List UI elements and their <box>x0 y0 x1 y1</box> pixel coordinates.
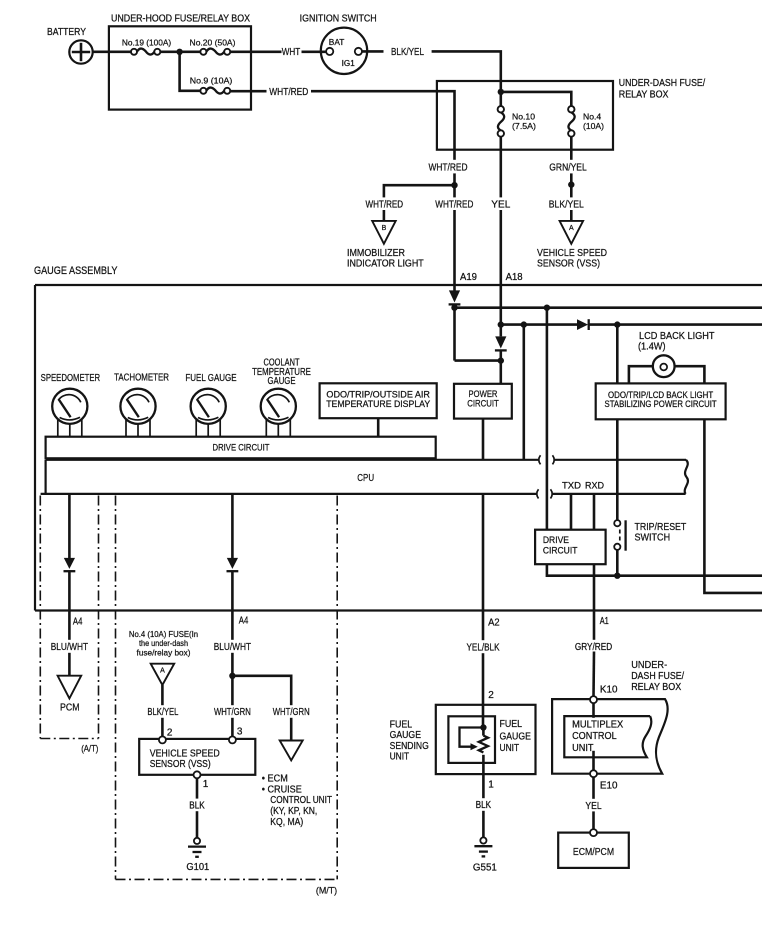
svg-text:A4: A4 <box>73 616 83 627</box>
fuel variable resistor <box>479 728 488 800</box>
svg-text:GAUGE: GAUGE <box>268 376 296 387</box>
fuse No.9 (10A) <box>200 88 230 94</box>
svg-text:A18: A18 <box>506 272 523 283</box>
under-dash fuse/relay box <box>437 81 613 150</box>
fuel resistor wiper arrow <box>460 728 484 751</box>
under-dash relay box outline (torn) <box>552 699 668 774</box>
VSS pin 1 circle <box>194 771 201 778</box>
svg-text:SENDING: SENDING <box>390 741 429 752</box>
svg-text:VEHICLE SPEED: VEHICLE SPEED <box>537 248 607 259</box>
wire fuse20 to WHT label <box>230 50 281 53</box>
node power circuit feed <box>498 357 504 363</box>
drive circuit long box <box>46 437 436 459</box>
power circuit box <box>454 384 512 419</box>
wire fuse9 to WHT/RED label <box>230 90 266 93</box>
wire diode D1 to bus node <box>453 304 456 360</box>
wire WHT to ignition switch <box>302 50 327 53</box>
svg-text:UNDER-DASH FUSE/: UNDER-DASH FUSE/ <box>619 78 706 89</box>
wire label YEL bottom <box>580 799 607 812</box>
trip/reset switch label <box>635 522 687 544</box>
wire label WHT/GRN branch <box>268 705 314 718</box>
svg-text:KQ, MA): KQ, MA) <box>270 817 303 828</box>
svg-text:BLU/WHT: BLU/WHT <box>51 642 88 653</box>
svg-text:No.20 (50A): No.20 (50A) <box>190 37 236 47</box>
wire A19 branch to power circuit node <box>455 359 501 362</box>
pin K10 circle <box>590 696 597 703</box>
svg-text:CIRCUIT: CIRCUIT <box>467 398 499 409</box>
wire label BLK/YEL at VSS connector <box>544 197 588 210</box>
svg-text:SPEEDOMETER: SPEEDOMETER <box>41 373 101 384</box>
odo/trip/outside air temperature display box <box>320 383 437 418</box>
svg-text:STABILIZING POWER CIRCUIT: STABILIZING POWER CIRCUIT <box>605 399 718 409</box>
wire label WHT/RED at A19 wire <box>433 197 476 210</box>
svg-text:BLK: BLK <box>476 800 492 811</box>
wire label BLK/YEL VSS <box>141 705 184 718</box>
node junction under-hood <box>176 49 182 55</box>
ECM/PCM box <box>558 833 629 868</box>
svg-text:fuse/relay box): fuse/relay box) <box>137 648 191 658</box>
svg-text:(KY, KP, KN,: (KY, KP, KN, <box>270 806 317 817</box>
svg-text:RELAY BOX: RELAY BOX <box>619 89 669 100</box>
svg-text:(A/T): (A/T) <box>81 744 98 755</box>
power circuit label <box>467 389 499 409</box>
node bus1 start <box>451 305 457 311</box>
svg-text:WHT/GRN: WHT/GRN <box>214 707 251 718</box>
svg-text:• CRUISE: • CRUISE <box>262 784 302 795</box>
fuse No.20 (50A) <box>200 49 230 55</box>
svg-text:BLK: BLK <box>189 801 205 812</box>
label immobilizer indicator light <box>347 248 424 269</box>
svg-text:A: A <box>569 225 574 232</box>
svg-text:WHT/RED: WHT/RED <box>269 87 308 98</box>
svg-text:GAUGE ASSEMBLY: GAUGE ASSEMBLY <box>34 265 118 277</box>
wire label YEL at A18 wire <box>489 197 514 210</box>
multiplex control unit box (torn) <box>564 716 651 757</box>
wire stabilizer right pin down <box>704 419 762 593</box>
gauge assembly box bottom border <box>35 609 762 611</box>
connector A triangle (VSS feed) <box>560 221 584 244</box>
node splice GRN/YEL to BLK/YEL <box>568 181 574 187</box>
wire label BLK fuel <box>470 798 496 811</box>
wire fuel to ground G551 <box>482 811 485 838</box>
svg-text:VEHICLE SPEED: VEHICLE SPEED <box>150 748 220 759</box>
fuse No.10 (7.5A) <box>498 106 505 137</box>
VSS pin 2 circle <box>159 736 166 743</box>
svg-text:A1: A1 <box>600 616 609 627</box>
wire label GRN/YEL below box <box>546 160 590 174</box>
svg-text:(M/T): (M/T) <box>316 886 337 897</box>
wire label WHT/GRN pin3 <box>210 705 256 718</box>
svg-text:ECM/PCM: ECM/PCM <box>573 847 614 858</box>
speedometer gauge <box>52 389 87 437</box>
svg-text:BLU/WHT: BLU/WHT <box>214 642 251 653</box>
fuse No.4 (10A) <box>568 106 575 137</box>
svg-text:TEMPERATURE DISPLAY: TEMPERATURE DISPLAY <box>326 399 430 409</box>
under-hood fuse/relay box <box>109 26 251 109</box>
svg-text:CIRCUIT: CIRCUIT <box>543 545 578 556</box>
svg-text:INDICATOR LIGHT: INDICATOR LIGHT <box>347 258 424 269</box>
wire odo display to drive circuit <box>377 418 380 437</box>
wire junction down to fuse No.10 <box>499 92 502 107</box>
ignition switch IG1 body <box>321 28 367 74</box>
svg-text:(1.4W): (1.4W) <box>638 342 666 353</box>
svg-text:K10: K10 <box>600 684 618 695</box>
svg-text:A2: A2 <box>488 617 500 628</box>
lcd back light bulb <box>653 355 675 377</box>
svg-text:MULTIPLEX: MULTIPLEX <box>572 719 623 730</box>
fuse No.4 label <box>583 112 604 131</box>
svg-text:UNDER-HOOD FUSE/RELAY BOX: UNDER-HOOD FUSE/RELAY BOX <box>111 14 250 25</box>
svg-text:BLK/YEL: BLK/YEL <box>147 707 178 718</box>
diode D2 on A18 feed <box>495 336 507 350</box>
A/T dash-dot enclosure <box>40 496 98 739</box>
ground G101 <box>188 838 206 857</box>
svg-text:CONTROL UNIT: CONTROL UNIT <box>270 795 332 806</box>
node bus1 to cpu feed <box>544 305 550 311</box>
gauge assembly box left border <box>34 285 36 611</box>
cpu break marks top <box>539 455 554 464</box>
svg-text:(10A): (10A) <box>583 121 604 131</box>
svg-text:GAUGE: GAUGE <box>390 730 422 741</box>
svg-text:YEL: YEL <box>491 199 510 210</box>
power bus 2 right segment <box>589 323 762 326</box>
svg-text:PCM: PCM <box>60 702 80 713</box>
svg-text:(7.5A): (7.5A) <box>512 121 536 131</box>
connector triangle to ECM/cruise <box>280 741 303 761</box>
svg-text:TACHOMETER: TACHOMETER <box>114 373 169 384</box>
svg-text:UNIT: UNIT <box>500 743 520 754</box>
wire drive circuit output to junction <box>547 564 762 576</box>
wire fuse19 to junction to fuse20 <box>160 50 200 53</box>
diode D1 on A19 feed <box>449 290 461 304</box>
coolant temperature gauge <box>261 389 296 437</box>
svg-text:A4: A4 <box>239 615 249 626</box>
label fuel gauge unit <box>500 719 532 754</box>
svg-text:WHT/RED: WHT/RED <box>366 199 404 210</box>
VSS label <box>150 748 220 770</box>
wire diode D2 to power circuit box <box>499 350 502 383</box>
svg-text:1: 1 <box>488 779 494 790</box>
wire WHT/RED down to junction and A19 <box>453 160 456 291</box>
wire label WHT/RED below box <box>426 160 470 174</box>
wire fuse No.4 down to A-connector <box>570 137 573 221</box>
odo/trip/lcd back light stabilizing power circuit box <box>596 383 726 419</box>
svg-text:G551: G551 <box>473 862 497 873</box>
svg-text:A: A <box>160 667 165 674</box>
svg-text:GRN/YEL: GRN/YEL <box>549 163 587 174</box>
wire stabilizer left pin down to trip switch <box>616 419 619 520</box>
node fuel resistor top <box>480 724 486 730</box>
label LCD back light <box>638 331 715 353</box>
svg-text:DRIVE CIRCUIT: DRIVE CIRCUIT <box>213 443 270 454</box>
fuel gauge sending unit outer box <box>436 705 536 774</box>
gauge assembly box top border <box>35 284 762 286</box>
svg-text:RELAY BOX: RELAY BOX <box>631 682 681 693</box>
lcd back light lamp loop right <box>675 366 705 383</box>
wire fuse No.10 down YEL to A18 <box>499 137 502 337</box>
battery symbol <box>69 40 92 63</box>
node VSS branch <box>229 673 235 679</box>
stabilizing circuit label <box>605 390 718 409</box>
svg-text:• ECM: • ECM <box>262 774 288 785</box>
fuse No.19 (100A) <box>131 49 160 55</box>
diode D3 on bus 2 <box>577 319 589 330</box>
svg-text:A19: A19 <box>460 272 477 283</box>
wire A4 (M/T) from cpu <box>231 494 234 558</box>
svg-text:WHT/RED: WHT/RED <box>428 163 467 174</box>
svg-text:IGNITION SWITCH: IGNITION SWITCH <box>300 14 377 25</box>
trip/reset switch <box>614 520 625 551</box>
ground G551 <box>474 837 492 856</box>
pin E10 circle <box>590 770 597 777</box>
wire IG1 to BLK/YEL label <box>362 50 383 53</box>
node bus2 start <box>498 321 504 327</box>
wire bus1 down through cpu to drive circuit <box>546 308 549 530</box>
wire label GRY/RED <box>571 640 617 653</box>
diode D5 on M/T wire <box>227 558 239 571</box>
cpu box left border <box>44 460 46 494</box>
wire branch to ECM/cruise connector <box>232 676 291 741</box>
vehicle speed sensor box <box>139 739 255 775</box>
svg-text:2: 2 <box>167 727 173 738</box>
svg-text:DASH FUSE/: DASH FUSE/ <box>631 671 684 682</box>
ignition switch BAT terminal <box>326 48 333 55</box>
wire A2 from cpu down to fuel gauge unit <box>482 494 485 728</box>
wire bus2 down to cpu top <box>522 325 525 460</box>
wire bus2 down to odo/lcd stabilizer box <box>616 325 619 384</box>
svg-text:2: 2 <box>488 690 494 701</box>
wire switch to junction <box>616 550 619 576</box>
svg-text:BLK/YEL: BLK/YEL <box>549 199 584 210</box>
svg-text:LCD BACK LIGHT: LCD BACK LIGHT <box>639 331 715 342</box>
svg-text:FUEL GAUGE: FUEL GAUGE <box>185 373 236 384</box>
wire E10 to ECM/PCM <box>592 777 595 829</box>
wire label BLK VSS <box>184 799 210 812</box>
svg-text:DRIVE: DRIVE <box>543 535 569 546</box>
node switch junction <box>614 573 620 579</box>
svg-text:E10: E10 <box>600 780 618 791</box>
odo/trip display label <box>326 390 430 409</box>
wire branch to immobilizer connector B <box>384 185 455 221</box>
wire A1 to multiplex K10 <box>592 652 595 698</box>
cpu box top border with break <box>46 459 686 461</box>
svg-text:GAUGE: GAUGE <box>500 731 532 742</box>
label vehicle speed sensor (VSS) top <box>537 248 607 269</box>
wire TXD cpu to drive circuit <box>570 494 573 530</box>
tachometer gauge <box>120 389 155 437</box>
svg-text:IG1: IG1 <box>342 58 355 68</box>
cpu wavy right edge <box>685 460 688 494</box>
svg-text:B: B <box>382 225 387 232</box>
wire WHT/RED into under-dash box <box>311 91 455 160</box>
svg-text:BATTERY: BATTERY <box>47 27 86 38</box>
wire diode to VSS pin 3 <box>231 571 234 736</box>
multiplex control unit label <box>571 718 627 754</box>
wire label BLU/WHT right <box>210 640 255 653</box>
svg-text:CPU: CPU <box>357 473 374 484</box>
node bus2 to cpu <box>521 321 527 327</box>
node junction BLK/YEL in under-dash box <box>498 89 504 95</box>
ignition switch IG1 terminal <box>355 48 362 55</box>
VSS pin 3 circle <box>229 736 236 743</box>
label under-dash fuse/relay box bottom <box>631 660 684 693</box>
svg-text:G101: G101 <box>186 862 209 873</box>
lcd back light lamp loop left <box>629 366 653 383</box>
svg-text:1: 1 <box>203 779 209 790</box>
svg-text:IMMOBILIZER: IMMOBILIZER <box>347 248 405 259</box>
svg-text:No.19 (100A): No.19 (100A) <box>122 37 171 47</box>
drive circuit small box <box>535 530 606 565</box>
svg-text:RXD: RXD <box>585 481 604 492</box>
fuse note label <box>129 629 198 658</box>
svg-text:TRIP/RESET: TRIP/RESET <box>635 522 687 533</box>
wire battery to under-hood box <box>93 50 132 53</box>
wire diode to PCM connector <box>68 571 71 676</box>
fuse No.10 label <box>512 112 536 131</box>
fuel gauge sending unit inner box <box>448 716 495 763</box>
wire RXD cpu to drive circuit <box>593 494 596 530</box>
power bus 1 horizontal <box>455 306 763 309</box>
svg-text:No.9 (10A): No.9 (10A) <box>190 76 233 86</box>
svg-text:WHT/RED: WHT/RED <box>435 199 473 210</box>
connector A triangle (M/T) <box>151 664 175 685</box>
svg-text:FUEL: FUEL <box>390 719 413 730</box>
wire label WHT/RED at connector B <box>363 197 406 210</box>
wire junction to fuse No.4 <box>501 92 572 107</box>
svg-text:WHT: WHT <box>282 47 301 58</box>
node bus2 to lcd stabilizer <box>614 321 620 327</box>
cpu break marks bottom <box>537 489 552 498</box>
svg-text:UNIT: UNIT <box>572 743 593 754</box>
wire K10 through multiplex <box>592 703 595 771</box>
svg-text:SWITCH: SWITCH <box>635 533 671 544</box>
svg-text:FUEL: FUEL <box>500 719 523 730</box>
svg-text:SENSOR (VSS): SENSOR (VSS) <box>537 258 600 269</box>
cpu box bottom border with break <box>41 493 686 495</box>
wire BLK/YEL to under-dash box <box>432 51 501 91</box>
wire VSS pin1 to ground <box>196 778 199 838</box>
wire A4 (A/T) from cpu <box>68 494 71 558</box>
wire power circuit to cpu <box>482 419 485 460</box>
under-dash fuse/relay box title <box>619 78 706 100</box>
svg-text:UNDER-: UNDER- <box>631 660 667 671</box>
svg-text:BAT: BAT <box>329 37 345 47</box>
connector B triangle <box>372 221 396 244</box>
power bus 2 left segment <box>501 323 577 326</box>
svg-text:YEL/BLK: YEL/BLK <box>467 643 500 654</box>
wire label BLU/WHT left <box>47 640 92 653</box>
diode D4 on A/T wire <box>64 558 76 571</box>
svg-text:SENSOR (VSS): SENSOR (VSS) <box>150 759 211 770</box>
label ECM / cruise control unit <box>262 774 332 828</box>
pin ECM circle <box>590 829 597 836</box>
wire A1 from drive circuit down <box>593 564 596 641</box>
node splice WHT/RED <box>451 182 457 188</box>
svg-text:YEL: YEL <box>585 801 602 812</box>
svg-text:3: 3 <box>237 727 243 738</box>
svg-text:TXD: TXD <box>562 481 581 492</box>
label fuel gauge sending unit <box>390 719 429 762</box>
svg-text:BLK/YEL: BLK/YEL <box>391 47 424 58</box>
label coolant temperature gauge <box>252 358 311 388</box>
wire label YEL/BLK <box>461 640 506 653</box>
svg-text:CONTROL: CONTROL <box>572 731 617 742</box>
svg-text:WHT/GRN: WHT/GRN <box>273 707 310 718</box>
svg-text:UNIT: UNIT <box>390 752 410 763</box>
fuel gauge <box>191 389 226 437</box>
drive circuit small label <box>543 535 578 557</box>
M/T dash-dot enclosure <box>116 496 338 880</box>
connector PCM triangle <box>58 676 82 699</box>
wire connector A to VSS pin 2 <box>161 685 164 737</box>
wire junction vertical to fuse No.9 <box>180 52 201 91</box>
